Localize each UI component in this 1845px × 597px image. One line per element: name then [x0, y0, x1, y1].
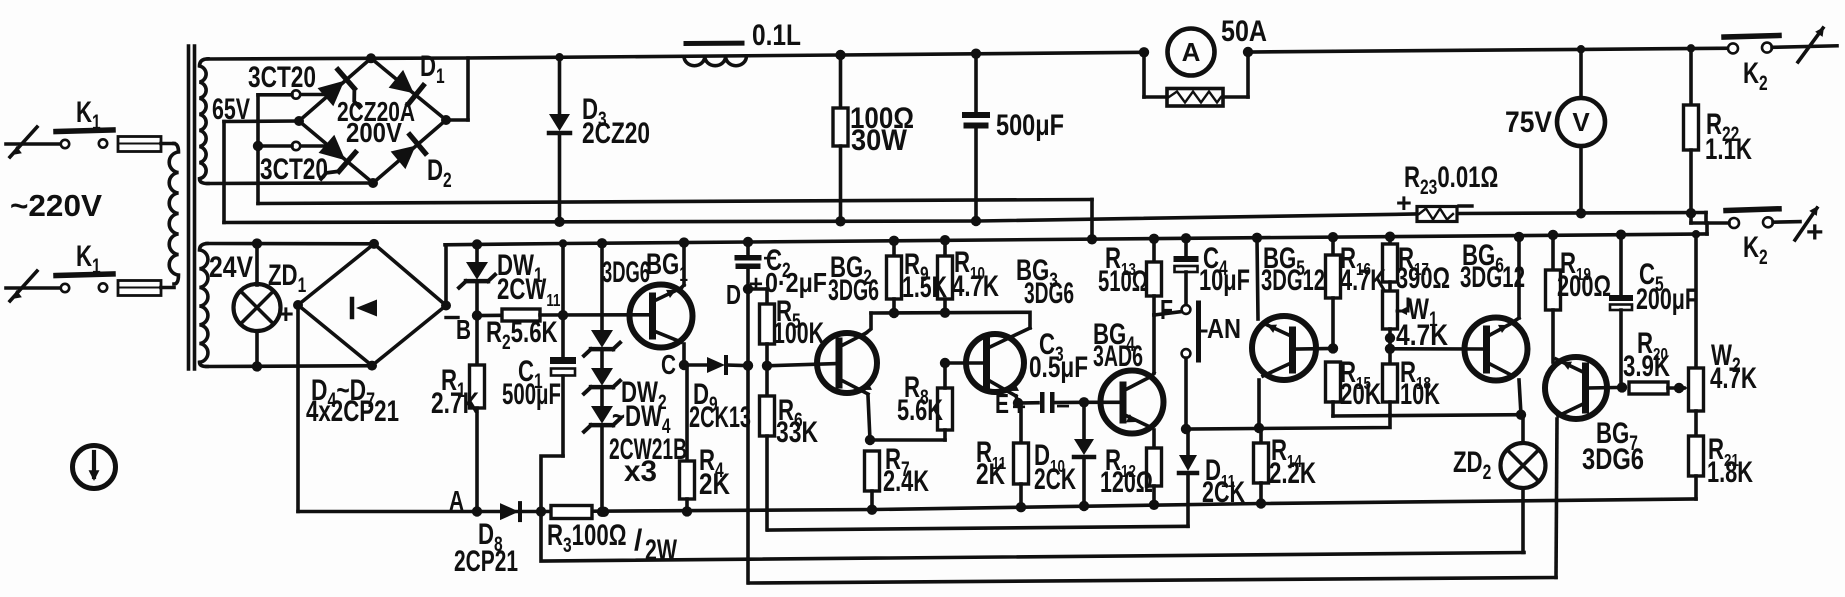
svg-text:E: E	[995, 388, 1009, 419]
svg-text:/: /	[634, 524, 643, 557]
svg-text:AN: AN	[1207, 313, 1241, 344]
svg-text:~220V: ~220V	[10, 188, 102, 223]
svg-text:−: −	[1056, 393, 1070, 420]
svg-text:2.4K: 2.4K	[883, 465, 929, 498]
svg-text:4x2CP21: 4x2CP21	[306, 395, 399, 428]
svg-text:3DG12: 3DG12	[1460, 261, 1525, 294]
svg-text:2.2K: 2.2K	[1269, 457, 1316, 490]
svg-text:R25.6K: R25.6K	[486, 315, 558, 354]
svg-text:A: A	[449, 485, 464, 516]
svg-text:50A: 50A	[1221, 15, 1267, 48]
svg-text:30W: 30W	[851, 124, 908, 157]
svg-text:4.7K: 4.7K	[1710, 362, 1757, 395]
svg-text:500μF: 500μF	[502, 378, 561, 411]
svg-text:200μF: 200μF	[1636, 283, 1698, 316]
svg-text:R3100Ω: R3100Ω	[547, 518, 626, 557]
svg-text:2.7K: 2.7K	[431, 387, 479, 420]
svg-text:4.7K: 4.7K	[1396, 319, 1448, 352]
svg-text:3CT20: 3CT20	[248, 61, 316, 94]
svg-text:510Ω: 510Ω	[1098, 265, 1148, 298]
svg-text:10K: 10K	[1400, 378, 1440, 411]
svg-text:2CK: 2CK	[1202, 476, 1245, 509]
svg-text:3CT20: 3CT20	[260, 153, 328, 186]
svg-text:D: D	[726, 279, 741, 310]
svg-text:3AD6: 3AD6	[1093, 340, 1143, 373]
svg-text:+: +	[1806, 216, 1824, 249]
svg-text:+: +	[1012, 394, 1026, 421]
svg-text:+: +	[749, 271, 763, 298]
svg-text:200V: 200V	[346, 117, 402, 148]
svg-text:1.1K: 1.1K	[1705, 133, 1752, 166]
svg-text:390Ω: 390Ω	[1396, 262, 1450, 295]
svg-text:33K: 33K	[776, 416, 818, 449]
svg-text:2CK13: 2CK13	[689, 401, 751, 434]
svg-text:2CP21: 2CP21	[454, 545, 518, 578]
svg-text:A: A	[1182, 37, 1201, 67]
svg-text:1.8K: 1.8K	[1707, 456, 1753, 489]
svg-text:2CZ20: 2CZ20	[582, 117, 650, 150]
svg-text:0.5μF: 0.5μF	[1029, 351, 1088, 384]
svg-text:0.1L: 0.1L	[752, 19, 801, 52]
svg-text:+: +	[1396, 188, 1412, 218]
svg-text:120Ω: 120Ω	[1100, 466, 1153, 499]
svg-text:75V: 75V	[1505, 106, 1552, 139]
svg-text:F: F	[1160, 294, 1173, 325]
svg-text:B: B	[456, 314, 471, 345]
svg-text:2W: 2W	[645, 534, 677, 567]
svg-text:10μF: 10μF	[1199, 264, 1250, 297]
svg-text:3DG6: 3DG6	[1024, 277, 1074, 310]
svg-text:R230.01Ω: R230.01Ω	[1404, 160, 1498, 199]
svg-text:3.9K: 3.9K	[1623, 350, 1670, 383]
svg-text:3DG12: 3DG12	[1261, 264, 1325, 297]
svg-text:2K: 2K	[976, 458, 1005, 491]
svg-text:200Ω: 200Ω	[1557, 270, 1611, 303]
svg-text:4.7K: 4.7K	[1340, 264, 1386, 297]
svg-text:1.5K: 1.5K	[902, 271, 947, 304]
svg-text:5.6K: 5.6K	[897, 394, 943, 427]
svg-text:500μF: 500μF	[996, 109, 1064, 142]
svg-text:24V: 24V	[209, 251, 253, 284]
svg-text:0·2μF: 0·2μF	[765, 267, 827, 298]
svg-text:100K: 100K	[773, 317, 824, 350]
svg-text:65V: 65V	[212, 93, 250, 126]
svg-text:x3: x3	[624, 455, 657, 488]
svg-text:2CK: 2CK	[1034, 463, 1076, 496]
svg-text:C: C	[661, 349, 676, 380]
svg-text:3DG6: 3DG6	[1582, 443, 1644, 476]
svg-text:20K: 20K	[1340, 378, 1381, 411]
svg-text:2K: 2K	[699, 468, 730, 501]
svg-text:3DG6: 3DG6	[602, 256, 650, 289]
svg-text:+: +	[278, 299, 294, 329]
svg-text:V: V	[1572, 107, 1590, 137]
svg-text:4.7K: 4.7K	[952, 270, 999, 303]
svg-text:3DG6: 3DG6	[828, 274, 879, 307]
